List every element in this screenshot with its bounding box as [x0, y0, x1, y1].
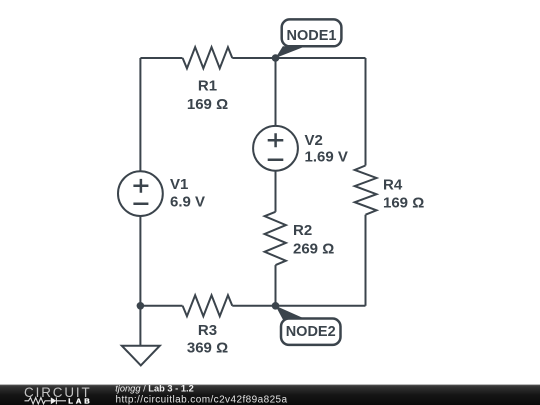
- wire top rail left segment: [140, 57, 182, 59]
- wire left rail upper: [139, 58, 141, 171]
- svg-text:1.69 V: 1.69 V: [305, 149, 348, 166]
- svg-text:R2: R2: [293, 222, 312, 239]
- footer credit line 1: [115, 384, 194, 394]
- svg-text:NODE1: NODE1: [287, 28, 337, 44]
- wire ground stem: [139, 306, 141, 346]
- node junction dot NODE1: [272, 54, 280, 62]
- svg-text:169 Ω: 169 Ω: [383, 195, 424, 212]
- wire R1 to node1: [232, 57, 275, 59]
- wire middle branch upper: [275, 58, 277, 126]
- voltage source V1: [118, 171, 205, 216]
- svg-text:http://circuitlab.com/c2v42f89: http://circuitlab.com/c2v42f89a825a: [116, 395, 288, 405]
- wire R2 to node2: [275, 265, 277, 306]
- svg-text:V2: V2: [305, 132, 323, 149]
- resistor R4: [355, 166, 425, 215]
- resistor R2: [265, 212, 335, 265]
- svg-text:269 Ω: 269 Ω: [293, 241, 334, 258]
- node NODE2 callout: [276, 306, 341, 345]
- svg-text:6.9 V: 6.9 V: [170, 194, 205, 211]
- wire left rail lower: [139, 216, 141, 306]
- svg-text:tjongg / Lab 3 - 1.2: tjongg / Lab 3 - 1.2: [115, 384, 194, 394]
- svg-text:369 Ω: 369 Ω: [187, 340, 228, 357]
- svg-text:R4: R4: [383, 177, 403, 194]
- svg-text:R1: R1: [198, 78, 217, 95]
- wire node1 to top-right corner: [276, 57, 366, 59]
- resistor R3: [183, 295, 233, 356]
- footer credit line 2: [116, 395, 288, 405]
- voltage source V2: [253, 126, 348, 171]
- wire right rail upper: [365, 58, 367, 166]
- wire right rail lower: [365, 215, 367, 306]
- ground: [122, 346, 160, 366]
- node NODE1 callout: [276, 19, 342, 58]
- svg-text:LAB: LAB: [68, 396, 92, 405]
- footer bar: [0, 385, 540, 405]
- wire V2 to R2: [275, 171, 277, 212]
- svg-text:169 Ω: 169 Ω: [187, 96, 228, 113]
- node junction dot left-bottom: [137, 302, 145, 310]
- CircuitLab logo LAB text: [68, 396, 92, 405]
- CircuitLab logo circuit glyph: [25, 397, 67, 404]
- wire node2 to bottom-right corner: [276, 305, 366, 307]
- node junction dot NODE2: [272, 302, 280, 310]
- CircuitLab logo wordmark: [24, 385, 92, 400]
- svg-text:R3: R3: [198, 322, 217, 339]
- wire bottom rail left segment: [140, 305, 182, 307]
- resistor R1: [183, 47, 233, 113]
- wire R3 to node2: [232, 305, 275, 307]
- svg-text:NODE2: NODE2: [286, 324, 336, 340]
- svg-text:V1: V1: [170, 176, 188, 193]
